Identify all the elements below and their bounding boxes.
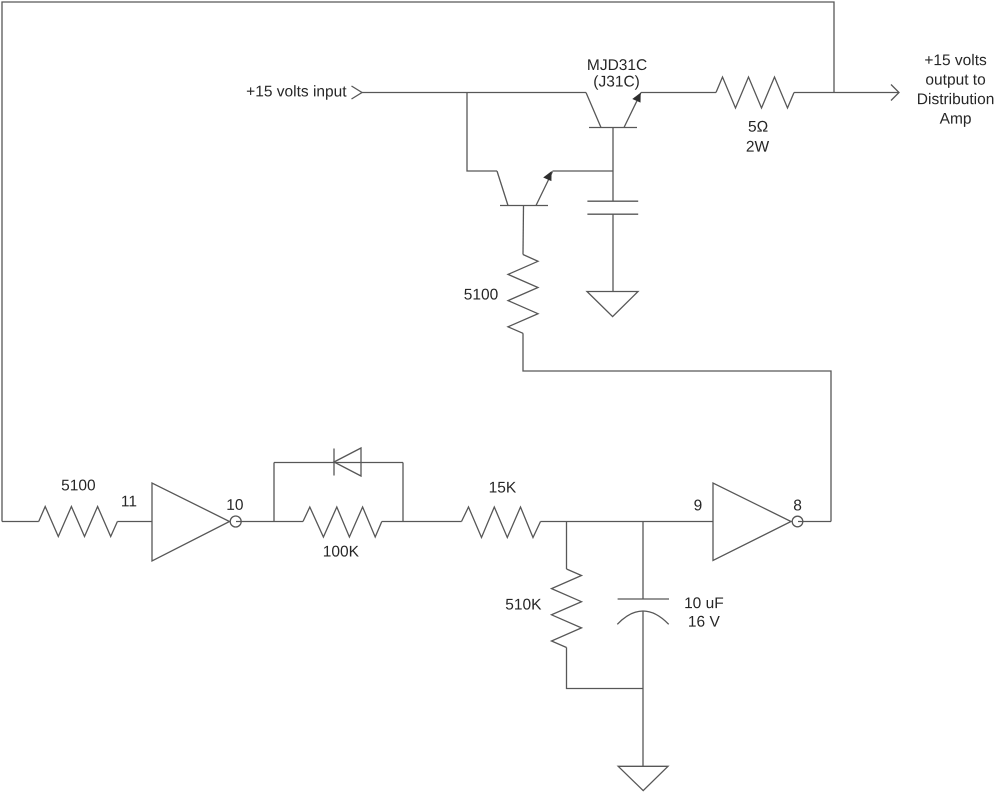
svg-text:2W: 2W xyxy=(746,139,770,156)
wire U1 output to diode/R4 node xyxy=(236,521,303,523)
transistor Q2 collector diagonal xyxy=(497,171,508,206)
svg-text:5100: 5100 xyxy=(464,286,499,303)
wire R2 bottom to inverter U2 output net xyxy=(523,333,831,521)
wire node to R6 510K xyxy=(566,522,568,570)
capacitor C2 top plate xyxy=(618,598,669,600)
svg-text:(J31C): (J31C) xyxy=(593,74,640,91)
node input arrow chevron xyxy=(352,86,363,99)
op-amp U1 output bubble xyxy=(230,516,241,527)
transistor Q1 base bar xyxy=(589,127,637,129)
wire C1 to ground xyxy=(612,214,614,291)
svg-text:11: 11 xyxy=(121,493,137,510)
transistor Q2 emitter arrowhead xyxy=(543,171,551,181)
resistor R5 15K zigzag xyxy=(462,507,541,538)
transistor Q2 base bar xyxy=(500,205,548,207)
svg-text:16 V: 16 V xyxy=(688,614,721,631)
wire Q2 base lead xyxy=(522,206,525,255)
wire outer feedback loop (left/top/right) xyxy=(2,2,834,522)
wire node to capacitor C2 xyxy=(642,522,644,600)
wire Q1 emitter to resistor R1 xyxy=(641,92,716,94)
wire output rail xyxy=(794,92,899,94)
wire C2 to ground xyxy=(642,611,644,766)
diode D1 triangle xyxy=(334,448,361,476)
ground G2 xyxy=(618,766,668,790)
resistor R6 510K vertical zigzag xyxy=(552,569,582,648)
resistor R2 5100 vertical zigzag xyxy=(508,255,538,334)
transistor Q2 emitter diagonal xyxy=(536,172,553,206)
op-amp U2 output bubble xyxy=(792,516,803,527)
transistor Q1 emitter arrowhead xyxy=(632,93,640,103)
node output arrow chevron xyxy=(891,85,899,101)
wire Q1 base lead down to capacitor xyxy=(612,128,614,202)
wire bottom-left rail into R3 xyxy=(2,521,39,523)
svg-text:10 uF: 10 uF xyxy=(684,595,724,612)
wire R3 to inverter U1 input xyxy=(117,521,152,523)
svg-text:MJD31C: MJD31C xyxy=(587,57,647,74)
wire Q2 emitter to Q1 base xyxy=(553,170,614,172)
svg-text:9: 9 xyxy=(694,497,703,514)
capacitor C1 top plate xyxy=(587,200,638,202)
resistor R4 100K zigzag xyxy=(303,507,382,537)
svg-text:output to: output to xyxy=(925,72,985,89)
wire U2 output to right vertical xyxy=(798,521,831,523)
svg-text:+15 volts: +15 volts xyxy=(924,52,987,69)
wire R6 bottom xyxy=(567,648,644,689)
svg-text:Amp: Amp xyxy=(940,111,972,128)
op-amp U2 inverter triangle xyxy=(713,483,791,561)
capacitor C1 bottom plate xyxy=(587,213,638,215)
wire R4 to R5 xyxy=(382,521,462,523)
svg-text:10: 10 xyxy=(226,497,244,514)
wire diode branch top xyxy=(274,462,403,464)
svg-text:5Ω: 5Ω xyxy=(748,119,768,136)
wire diode branch right vertical xyxy=(402,463,404,522)
svg-text:+15 volts input: +15 volts input xyxy=(246,83,347,100)
transistor Q1 emitter diagonal xyxy=(624,93,641,128)
resistor R1 5ohm zigzag xyxy=(716,77,794,108)
svg-text:5100: 5100 xyxy=(61,477,96,494)
ground G1 xyxy=(587,292,638,317)
resistor R3 5100 horizontal zigzag xyxy=(39,507,118,537)
svg-text:15K: 15K xyxy=(489,479,517,496)
svg-text:Distribution: Distribution xyxy=(917,91,995,108)
transistor Q1 collector diagonal xyxy=(586,93,601,128)
svg-text:510K: 510K xyxy=(505,597,542,614)
diode D1 cathode bar xyxy=(333,449,335,476)
wire +15V input rail xyxy=(362,92,586,94)
wire Q2 collector branch from input rail xyxy=(467,93,497,172)
svg-text:100K: 100K xyxy=(323,543,360,560)
capacitor C2 curved plate xyxy=(617,611,668,624)
op-amp U1 inverter triangle xyxy=(152,483,230,561)
wire R5 to inverter U2 input xyxy=(541,521,714,523)
wire diode branch left vertical xyxy=(273,463,275,522)
svg-text:8: 8 xyxy=(793,497,802,514)
